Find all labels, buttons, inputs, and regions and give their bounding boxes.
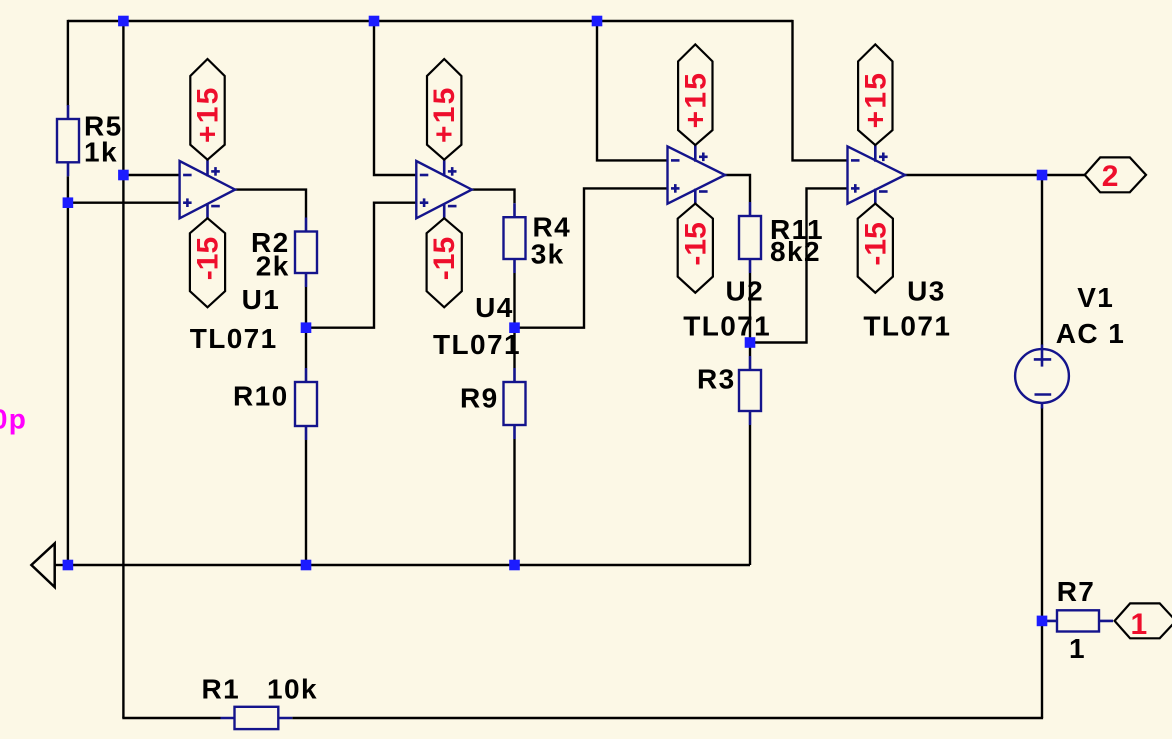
wire: node R2/R10 to U4 noninverting input xyxy=(306,203,416,328)
-15 supply flag (U4) xyxy=(427,218,462,307)
svg-text:-15: -15 xyxy=(192,237,225,280)
svg-text:10k: 10k xyxy=(267,673,318,704)
junction node: U1 inverting input xyxy=(118,170,129,181)
wire: U1 inverting input stub xyxy=(123,174,179,176)
wire: bus to U2 inverting input xyxy=(597,20,668,161)
-15 supply flag (U1) xyxy=(190,218,225,307)
svg-text:U2: U2 xyxy=(726,276,765,307)
-15 supply flag (U2) xyxy=(678,204,713,293)
junction node: top bus / feedback vertical xyxy=(118,16,129,27)
svg-text:R3: R3 xyxy=(697,363,736,394)
svg-text:3k: 3k xyxy=(531,239,565,270)
svg-text:+15: +15 xyxy=(192,86,225,144)
wire: bus to U3 inverting input xyxy=(793,20,848,161)
svg-text:TL071: TL071 xyxy=(683,310,771,341)
wire: bottom wire right of R1 xyxy=(292,717,1043,719)
svg-text:U4: U4 xyxy=(475,292,514,323)
op-amp U3 xyxy=(848,145,906,204)
voltage source V1 xyxy=(1015,345,1069,409)
wire: output node down to V1 top xyxy=(1041,175,1043,345)
junction node: output / V1 xyxy=(1037,170,1048,181)
svg-text:2k: 2k xyxy=(256,251,290,282)
junction node: V1 / R7 xyxy=(1037,616,1048,627)
svg-text:TL071: TL071 xyxy=(190,323,278,354)
wire: U3 output to port 2 xyxy=(905,174,1085,176)
junction node: U1 noninverting input xyxy=(63,197,74,208)
svg-text:-15: -15 xyxy=(428,237,461,280)
junction node: R4/R9 xyxy=(509,322,520,333)
svg-text:R1: R1 xyxy=(202,673,241,704)
+15 supply flag (U3) xyxy=(858,44,892,145)
-15 supply flag (U3) xyxy=(858,204,893,293)
svg-text:-15: -15 xyxy=(679,222,712,265)
wire: bottom wire left of R1 xyxy=(122,717,220,719)
wire: U2 output to R11 xyxy=(725,175,750,202)
resistor R1 xyxy=(221,707,293,729)
port 1 xyxy=(1115,603,1172,641)
svg-text:U1: U1 xyxy=(242,284,281,315)
svg-text:8k2: 8k2 xyxy=(770,236,821,267)
wire: U4 output to R4 xyxy=(472,190,515,204)
+15 supply flag (U4) xyxy=(427,59,461,160)
resistor R2 xyxy=(295,218,317,288)
svg-text:2: 2 xyxy=(1102,160,1119,193)
svg-text:R10: R10 xyxy=(233,380,289,411)
wire: V1 bottom to bottom wire xyxy=(1041,408,1043,719)
wire: node R11/R3 to U3 noninverting input xyxy=(750,188,848,342)
wire: R4 bottom to R9 top xyxy=(513,273,515,368)
svg-text:1k: 1k xyxy=(84,137,118,168)
port 2 xyxy=(1085,157,1146,193)
svg-text:V1: V1 xyxy=(1077,282,1114,313)
resistor R5 xyxy=(57,105,79,176)
wire: ground stub xyxy=(55,564,68,566)
op-amp U2 xyxy=(668,145,726,204)
svg-text:AC 1: AC 1 xyxy=(1056,318,1125,349)
junction node: R9/ground bus xyxy=(509,560,520,571)
svg-text:U3: U3 xyxy=(907,276,946,307)
wire: R9 bottom to ground bus xyxy=(513,439,515,565)
svg-text:+15: +15 xyxy=(679,71,712,129)
resistor R7 xyxy=(1043,610,1113,631)
junction node: ground xyxy=(63,560,74,571)
junction node: R11/R3 xyxy=(745,337,756,348)
+15 supply flag (U2) xyxy=(678,44,712,145)
svg-text:+15: +15 xyxy=(859,71,892,129)
resistor R11 xyxy=(739,202,761,273)
resistor R9 xyxy=(504,368,526,439)
resistor R3 xyxy=(739,356,761,425)
op-amp U4 xyxy=(416,160,472,219)
svg-text:100p: 100p xyxy=(0,404,27,435)
resistor R4 xyxy=(504,203,526,273)
wire: R3 bottom to ground bus xyxy=(749,425,751,565)
resistor R10 xyxy=(295,368,317,440)
svg-text:-15: -15 xyxy=(859,222,892,265)
svg-text:TL071: TL071 xyxy=(863,310,951,341)
wire: left branch lower (R5 to ground bus) xyxy=(67,176,69,565)
svg-text:R7: R7 xyxy=(1057,576,1096,607)
svg-text:R9: R9 xyxy=(460,383,499,414)
+15 supply flag (U1) xyxy=(190,59,224,160)
op-amp U1 xyxy=(180,160,236,219)
svg-text:+15: +15 xyxy=(428,86,461,144)
junction node: top bus / U2 branch xyxy=(592,16,603,27)
wire: U1 output to R2 xyxy=(235,190,306,218)
svg-text:TL071: TL071 xyxy=(433,329,521,360)
ground xyxy=(31,543,54,587)
junction node: R2/R10 xyxy=(301,322,312,333)
wire: bus to U4 inverting input xyxy=(374,20,416,175)
wire: top supply bus xyxy=(68,20,793,22)
wire: left branch upper (bus to R5) xyxy=(67,20,69,106)
wire: feedback vertical x=123 (bus to bottom wire) xyxy=(122,20,124,718)
wire: R10 bottom to ground bus xyxy=(305,440,307,565)
wire: R11 bottom to R3 top xyxy=(749,273,751,356)
junction node: R10/ground bus xyxy=(301,560,312,571)
svg-text:1: 1 xyxy=(1069,633,1086,664)
junction node: top bus / U4 branch xyxy=(369,16,380,27)
wire: node R4/R9 to U2 noninverting input xyxy=(515,188,668,327)
wire: R2 bottom to R10 top xyxy=(305,287,307,368)
svg-text:1: 1 xyxy=(1131,608,1148,641)
wire: U1 noninverting input stub xyxy=(68,201,180,203)
wire: ground bus xyxy=(68,564,750,566)
